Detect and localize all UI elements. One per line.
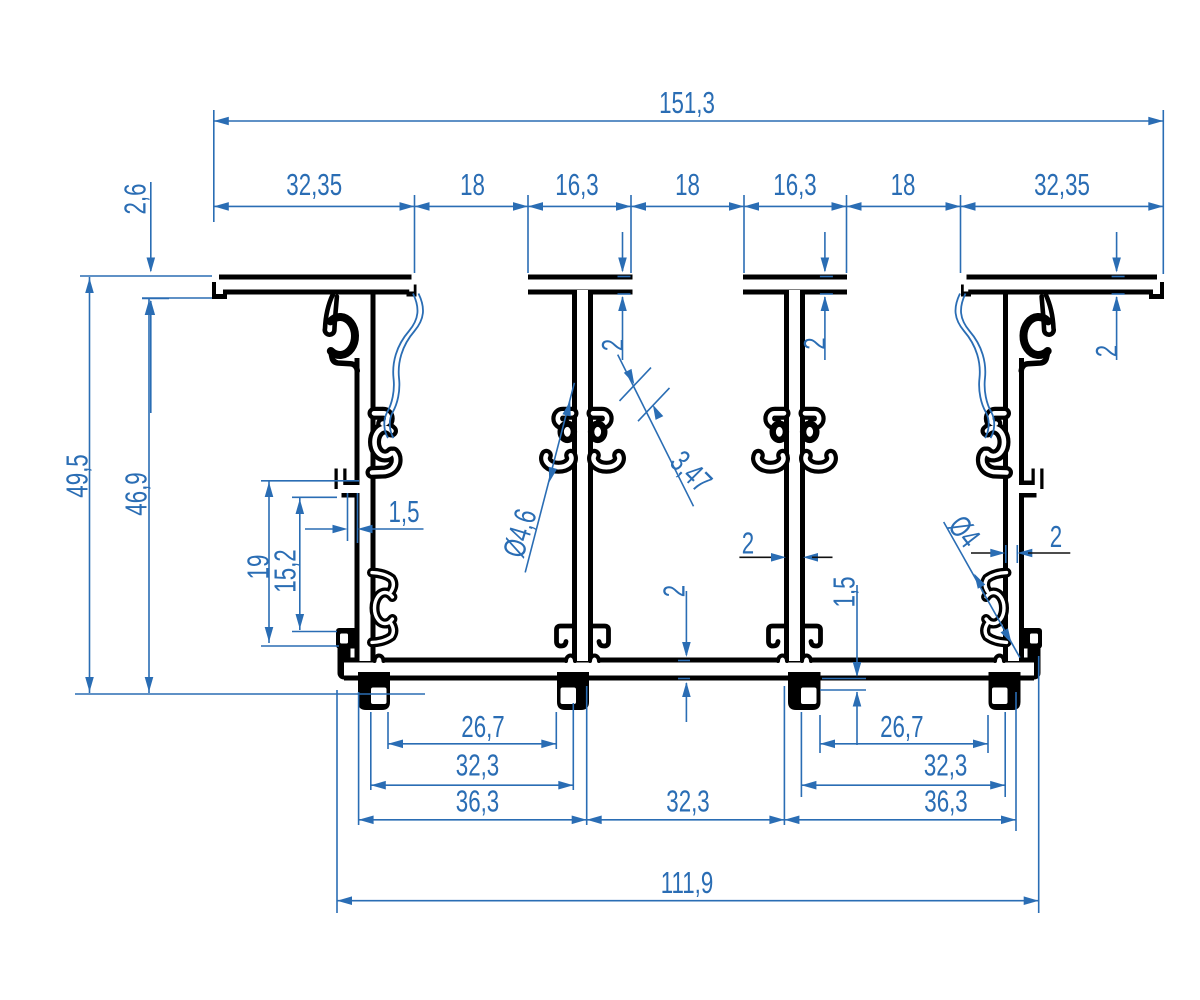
left end pillar xyxy=(338,643,351,673)
dim 3,47 xyxy=(618,355,694,507)
dim diameter 4,6 xyxy=(525,383,574,573)
clip S1-up ear xyxy=(325,295,337,335)
svg-text:111,9: 111,9 xyxy=(661,865,714,899)
squiggle stem 1 xyxy=(384,294,417,439)
S2 mid-left curl boss xyxy=(561,424,574,440)
stem 2 wall xyxy=(572,290,593,661)
stem 3 wall xyxy=(784,290,805,661)
S3 mid-right curl boss xyxy=(803,424,816,440)
svg-text:1,5: 1,5 xyxy=(827,576,861,607)
svg-text:32,3: 32,3 xyxy=(666,784,709,818)
profile hollow interior : white pass xyxy=(219,282,1157,669)
clip S4-up tab xyxy=(1021,352,1047,371)
clip S4-up ring xyxy=(1023,317,1048,355)
dim 49,5 xyxy=(89,277,91,693)
dim 32,3 xyxy=(587,819,785,821)
svg-text:2: 2 xyxy=(1050,519,1062,553)
svg-text:15,2: 15,2 xyxy=(268,549,302,592)
stem 4 wall upper left edge xyxy=(1003,292,1008,362)
svg-text:2: 2 xyxy=(595,339,629,351)
S2 mid-left ear hook xyxy=(558,413,572,423)
junction ripple xyxy=(802,656,811,664)
dim 2 stem3 wall xyxy=(739,556,777,558)
clip S1-up tab xyxy=(331,352,358,371)
S1 low top hook xyxy=(372,573,393,592)
base right end hook xyxy=(1020,628,1042,649)
dim 19 xyxy=(268,481,270,643)
stem 1 wall xyxy=(355,358,376,661)
svg-text:1,5: 1,5 xyxy=(388,494,419,528)
base left end hook xyxy=(336,628,358,649)
foot 1 xyxy=(358,672,390,710)
S4 mid C boss xyxy=(987,428,1004,456)
S3 mid-right ear hook xyxy=(805,413,819,423)
S1 mid C boss xyxy=(375,428,392,456)
svg-text:2: 2 xyxy=(798,337,832,349)
dim 1,5 stem1 tab offset xyxy=(305,528,333,530)
tab lip R xyxy=(1032,469,1044,490)
roof 2 slab xyxy=(528,275,633,295)
S3 mid-left curl boss xyxy=(773,424,786,440)
dim 36,3 xyxy=(359,819,587,821)
dim 2 roof thickness xyxy=(824,232,826,271)
svg-text:151,3: 151,3 xyxy=(659,85,715,119)
S3 mid-left crescent xyxy=(758,455,784,467)
S3 mid-right crescent xyxy=(805,455,831,467)
roof 4 left lip xyxy=(961,285,971,297)
S1 low bottom hook xyxy=(372,624,393,643)
dim 2 base thickness xyxy=(685,591,687,655)
svg-text:2: 2 xyxy=(742,526,754,560)
svg-text:32,35: 32,35 xyxy=(1034,167,1090,201)
dim row 32,35 / 18 / 16,3 ... xyxy=(214,205,1164,207)
dim 15,2 xyxy=(299,498,301,630)
stem 1 wall upper right edge xyxy=(371,292,376,362)
svg-text:2,6: 2,6 xyxy=(118,183,152,214)
ext lines left xyxy=(80,275,212,277)
stem 4 wall xyxy=(1003,358,1024,661)
tab slab L xyxy=(342,481,366,498)
dim 46,9 xyxy=(148,299,150,693)
S2 hook R xyxy=(592,626,609,646)
svg-text:16,3: 16,3 xyxy=(555,167,598,201)
svg-text:26,7: 26,7 xyxy=(461,709,504,743)
svg-text:2: 2 xyxy=(657,585,691,597)
dim 1,5 foot lip xyxy=(856,585,858,676)
svg-text:18: 18 xyxy=(891,167,916,201)
junction ripple xyxy=(778,656,787,664)
aluminium profile outline : black pass xyxy=(219,282,1157,673)
clip S4-up ear xyxy=(1042,295,1054,335)
S1 mid ear hook xyxy=(374,413,388,423)
S2 mid-right ear hook xyxy=(593,413,607,423)
dim 2,6 roof height xyxy=(150,182,152,271)
S3 mid-left ear hook xyxy=(770,413,784,423)
squiggle stem 4 xyxy=(961,294,994,439)
junction ripple xyxy=(375,656,384,664)
svg-text:16,3: 16,3 xyxy=(773,167,816,201)
dim 32,3 xyxy=(371,784,574,786)
dim 2 roof thickness xyxy=(622,232,624,271)
roof 1 right lip xyxy=(407,285,417,297)
dim 151,3 overall width xyxy=(214,120,1164,122)
base bar xyxy=(344,658,1034,681)
dim 32,3 xyxy=(801,784,1005,786)
dim 2 stem4 wall xyxy=(971,552,994,554)
S4 low top hook xyxy=(985,573,1006,592)
svg-text:32,3: 32,3 xyxy=(924,748,967,782)
S3 hook R xyxy=(804,626,821,646)
roof 4 right lip xyxy=(1149,282,1164,299)
tab slab R xyxy=(1014,481,1037,498)
S4 low C boss xyxy=(986,593,1004,624)
extension lines top xyxy=(213,110,215,222)
dim diameter 4 xyxy=(944,522,1020,658)
dim 36,3 xyxy=(784,819,1016,821)
foot 3 xyxy=(788,672,821,710)
S2 mid-right crescent xyxy=(594,455,620,467)
S2 mid-left crescent xyxy=(546,455,572,467)
foot 2 xyxy=(557,672,589,710)
junction ripple xyxy=(590,656,599,664)
svg-text:46,9: 46,9 xyxy=(119,472,153,515)
svg-text:36,3: 36,3 xyxy=(924,784,967,818)
S2 hook L xyxy=(557,626,574,646)
svg-text:32,35: 32,35 xyxy=(286,167,342,201)
svg-text:18: 18 xyxy=(460,167,485,201)
S4 mid J hook xyxy=(982,453,1006,473)
roof 3 slab xyxy=(743,275,847,295)
S1 mid J hook xyxy=(372,453,396,473)
bottom extension lines xyxy=(387,712,389,749)
junction ripple xyxy=(995,656,1004,664)
dim 2 roof thickness xyxy=(1116,232,1118,271)
svg-text:49,5: 49,5 xyxy=(60,454,94,497)
S4 low bottom hook xyxy=(985,624,1006,643)
roof 1 slab xyxy=(219,275,412,295)
clip S1-up ring xyxy=(330,317,355,355)
svg-text:26,7: 26,7 xyxy=(880,709,923,743)
S3 hook L xyxy=(769,626,786,646)
S4 mid ear hook xyxy=(990,413,1004,423)
foot 4 xyxy=(989,672,1021,710)
dim 26,7 xyxy=(388,743,556,745)
svg-text:32,3: 32,3 xyxy=(456,748,499,782)
svg-text:18: 18 xyxy=(675,167,700,201)
dim 26,7 xyxy=(820,743,988,745)
roof 1 left lip xyxy=(212,282,227,299)
S1 low C boss xyxy=(375,593,393,624)
junction ripple xyxy=(566,656,575,664)
right end pillar xyxy=(1028,643,1041,673)
svg-text:36,3: 36,3 xyxy=(456,784,499,818)
svg-text:2: 2 xyxy=(1089,345,1123,357)
S2 mid-right curl boss xyxy=(591,424,604,440)
tab lip L xyxy=(335,469,347,490)
dim 111,9 xyxy=(337,900,1039,902)
roof 4 slab xyxy=(967,275,1158,295)
